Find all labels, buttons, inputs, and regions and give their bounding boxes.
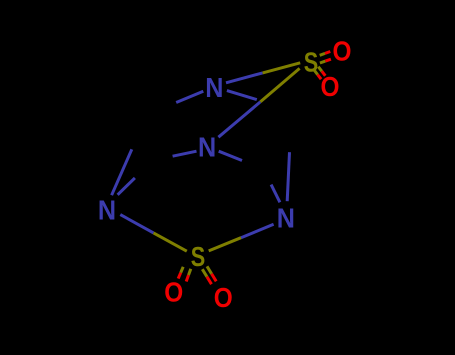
- wire CH2 right-lower to N right bond (partial): [271, 185, 280, 203]
- wire S=O double bond bottom-right dash 2: [202, 269, 207, 277]
- wire C-N bond (CH2 left lower to N center): [173, 151, 197, 156]
- wire N top to S top bond: [226, 73, 263, 83]
- svg-text:O: O: [164, 277, 183, 308]
- svg-text:S: S: [191, 241, 206, 272]
- wire S=O double bond right dash 2: [314, 70, 318, 75]
- wire C-N bond (CH2 left top to N left, partial): [112, 149, 132, 195]
- wire S=O double bond bottom-left dash 1: [189, 269, 191, 275]
- wire S=O double bond bottom-right dash 1: [207, 266, 212, 274]
- svg-text:N: N: [277, 203, 295, 234]
- svg-text:O: O: [321, 71, 340, 102]
- wire S=O double bond top-right dash 1: [320, 53, 325, 55]
- wire S top to N center bond: [260, 68, 299, 102]
- svg-text:N: N: [98, 194, 116, 225]
- wire S=O double bond bottom-left dash 2: [181, 267, 184, 273]
- svg-text:S: S: [304, 47, 319, 78]
- wire CH2 right to N right bond (partial): [287, 152, 289, 201]
- svg-text:N: N: [198, 132, 216, 163]
- svg-text:N: N: [205, 72, 223, 103]
- wire N left to S bottom bond: [120, 215, 153, 233]
- wire N1-C bond (N top to CH2 left, partial): [176, 91, 203, 102]
- wire N right to S bottom bond: [241, 224, 274, 237]
- svg-text:O: O: [214, 282, 233, 313]
- wire S=O double bond right dash 1: [318, 67, 322, 72]
- wire S=O double bond top-right dash 2: [320, 61, 326, 63]
- svg-text:O: O: [333, 35, 352, 66]
- wire N1-C bond (N top to CH2 right, partial): [227, 91, 257, 100]
- wire N center to CH2 right-lower bond (partial): [219, 151, 242, 160]
- wire C-N bond (CH2 left lower to N left, partial): [118, 178, 135, 195]
